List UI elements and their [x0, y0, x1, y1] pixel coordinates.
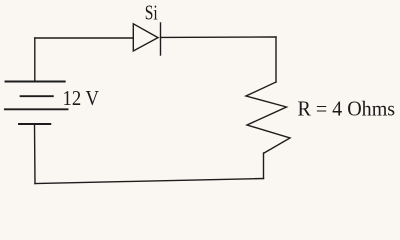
svg-text:R = 4 Ohms: R = 4 Ohms [298, 98, 396, 121]
wire right vertical [275, 37, 277, 82]
resistor R [246, 82, 290, 153]
wire bottom-right vertical [263, 153, 265, 179]
wire bottom [35, 179, 264, 184]
wire top right segment [161, 36, 277, 38]
svg-text:12 V: 12 V [63, 87, 100, 110]
wire top left segment [35, 37, 134, 39]
wire bottom-left vertical [34, 124, 37, 184]
svg-text:Si: Si [145, 1, 158, 24]
battery V1 [5, 82, 68, 125]
wire top-left vertical [34, 38, 36, 82]
diode D1 [133, 23, 160, 55]
